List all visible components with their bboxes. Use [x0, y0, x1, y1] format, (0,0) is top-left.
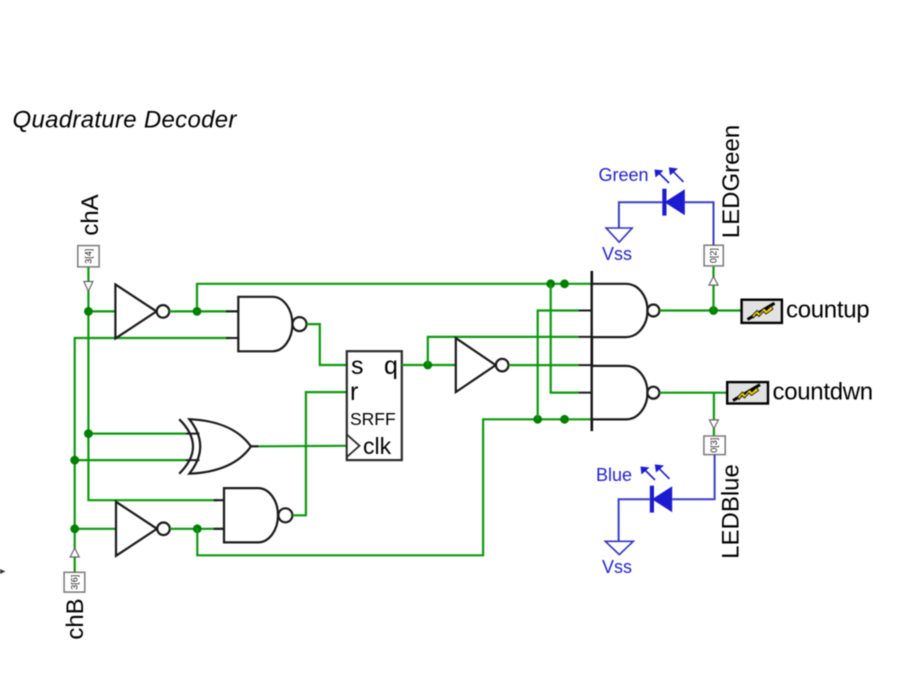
svg-text:Blue: Blue: [596, 465, 632, 485]
light arrows: [659, 173, 669, 183]
svg-text:Quadrature Decoder: Quadrature Decoder: [13, 106, 238, 133]
wire SRFF q out: [402, 364, 456, 366]
port box 3[4]: [78, 246, 99, 267]
pin stubs NAND3: [579, 311, 592, 337]
svg-text:chA: chA: [77, 194, 104, 235]
svg-text:Green: Green: [598, 165, 648, 185]
node countup: [709, 306, 718, 315]
wire LEDGreen cathode: [619, 202, 662, 228]
wire U2 long run to NAND4 input3: [197, 419, 592, 555]
svg-text:SRFF: SRFF: [350, 409, 396, 429]
svg-text:r: r: [350, 378, 358, 406]
wire chB to inverter U2: [75, 528, 116, 530]
wire U2 out: [170, 528, 224, 530]
wire chA to inverter U1: [88, 310, 115, 312]
node top-a: [546, 279, 555, 288]
node run-a: [533, 415, 542, 424]
wire chA to NAND2 input1: [88, 434, 218, 501]
NAND gate G3: [592, 284, 660, 337]
inverter U4: [456, 338, 509, 392]
arrow 0[2] (up): [709, 276, 718, 285]
port box 3[6]: [64, 572, 85, 592]
port box 0[2]: [704, 245, 723, 266]
svg-text:countup: countup: [786, 297, 869, 324]
wire U1 out top run: [197, 284, 592, 312]
svg-text:LEDBlue: LEDBlue: [718, 464, 745, 559]
countup probe box: [742, 300, 782, 323]
SRFF U3: [347, 351, 402, 460]
svg-text:clk: clk: [363, 433, 392, 459]
ground Vss (green led): [606, 228, 632, 242]
NAND gate G2: [214, 488, 293, 542]
LED LEDGreen: [598, 125, 745, 264]
port box 0[3]: [704, 436, 725, 455]
LED D2 body: [652, 486, 672, 512]
svg-text:Vss: Vss: [602, 557, 632, 577]
arrow chA (down): [84, 282, 93, 292]
node chB-xor: [70, 456, 79, 465]
wire U4 out to NAND4 input1: [509, 364, 579, 366]
svg-text:0[3]: 0[3]: [709, 438, 719, 453]
svg-text:q: q: [384, 352, 398, 380]
wire up to 0[2]: [712, 266, 714, 311]
wire chB to XOR input2: [75, 459, 186, 461]
svg-text:0[2]: 0[2]: [709, 248, 719, 263]
inverter U2: [116, 502, 170, 556]
wire LEDBlue cathode: [619, 499, 650, 541]
wire chA down to XOR: [88, 311, 185, 433]
NAND3/NAND4 input rail: [590, 271, 593, 431]
inverter U1: [115, 284, 169, 338]
wire G1 out to SRFF s: [307, 324, 347, 365]
wire G4 out to countdwn: [659, 392, 727, 394]
svg-text:s: s: [351, 352, 364, 380]
node chA-xor: [84, 429, 93, 438]
wire U1 out: [169, 310, 239, 312]
wire LEDGreen anode: [685, 202, 714, 245]
wire to NAND3 input2: [538, 311, 579, 420]
wire chA down: [87, 267, 89, 311]
svg-text:LEDGreen: LEDGreen: [718, 125, 745, 238]
node chB-inv: [70, 524, 79, 533]
svg-text:3[6]: 3[6]: [70, 575, 80, 590]
LED LEDBlue: [596, 455, 745, 577]
wire LEDBlue anode: [672, 455, 714, 500]
NAND gate G4: [592, 366, 660, 420]
svg-text:chB: chB: [62, 598, 89, 639]
node U1 out: [193, 307, 202, 316]
svg-text:Vss: Vss: [602, 244, 632, 264]
wire q to NAND3 input3: [428, 337, 579, 365]
node top-b: [560, 279, 569, 288]
ground Vss (blue led): [605, 541, 633, 554]
left edge tick: [0, 569, 6, 574]
light arrows: [645, 470, 655, 480]
arrow 0[3] (down): [709, 420, 718, 429]
LED D1 body: [665, 189, 685, 215]
countdwn probe box: [727, 382, 768, 403]
node run-b: [560, 415, 569, 424]
wire chB up: [75, 338, 231, 572]
arrow chB (up): [70, 548, 79, 557]
svg-text:3[4]: 3[4]: [84, 249, 94, 264]
pin stubs NAND4: [579, 365, 592, 393]
node U2 out: [193, 524, 202, 533]
node q: [423, 361, 432, 370]
wire G3 out to countup: [659, 309, 741, 311]
wire G2 out to SRFF r: [292, 392, 346, 515]
NAND gate G1: [226, 297, 307, 352]
node chA-main: [84, 307, 93, 316]
XOR gate X1: [179, 419, 258, 474]
wire down to 0[3]: [713, 393, 715, 436]
svg-text:countdwn: countdwn: [773, 378, 873, 405]
wire to NAND4 input2: [551, 284, 579, 393]
wire X1 out to SRFF clk: [259, 445, 347, 448]
